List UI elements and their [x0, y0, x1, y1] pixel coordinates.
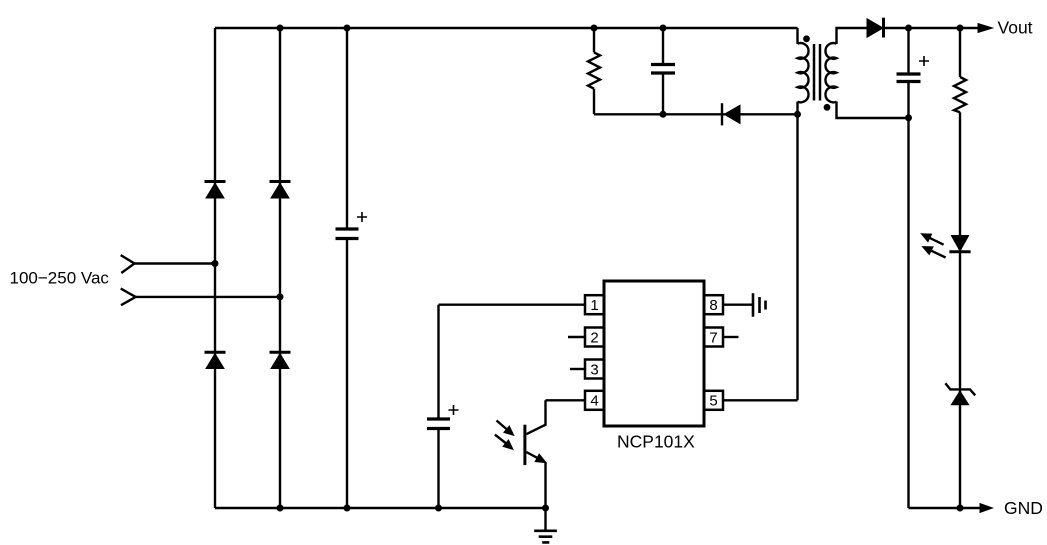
wire load column: [959, 28, 961, 508]
svg-text:NCP101X: NCP101X: [617, 431, 695, 451]
pin 5 box: [704, 391, 723, 410]
wire input line 1: [135, 262, 216, 264]
wire ground stub: [544, 508, 546, 530]
wire bridge right leg: [279, 28, 281, 508]
node bottom right / zener: [957, 505, 964, 512]
node bottom rail / bulk cap: [344, 505, 351, 512]
svg-text:4: 4: [590, 393, 598, 410]
wire bottom rail: [215, 507, 546, 509]
wire secondary bottom: [837, 102, 909, 119]
wire output rail: [885, 27, 978, 29]
svg-text:2: 2: [590, 329, 598, 346]
arrow Vout: [978, 24, 993, 33]
svg-text:7: 7: [709, 329, 717, 346]
diode D2 bridge top-right: [270, 182, 291, 199]
node secondary bottom / cap: [905, 114, 912, 121]
pin 2 box: [585, 328, 604, 347]
ground symbol pin 8 (sideways): [753, 293, 766, 317]
diode D1 bridge top-left: [205, 182, 226, 199]
pin 4 box: [585, 391, 604, 410]
node output rail / cap: [905, 25, 912, 32]
node top rail / snubber R: [591, 25, 598, 32]
light arrow 2: [495, 435, 506, 444]
capacitor C3 output: [897, 56, 930, 82]
node top rail / bulk cap: [344, 25, 351, 32]
capacitor C2 snubber: [651, 65, 675, 74]
wire snubber bottom: [594, 113, 798, 115]
node output rail / load: [957, 25, 964, 32]
pin 8 box: [704, 295, 723, 314]
node top rail / snubber C: [660, 25, 667, 32]
connector arrow input 2: [121, 289, 136, 306]
wire pin8: [724, 304, 753, 306]
base bar: [523, 425, 526, 465]
svg-text:5: 5: [709, 393, 717, 410]
wire input line 2: [136, 296, 280, 298]
node bottom rail / vcc cap: [435, 505, 442, 512]
wire pin1 to vcc cap: [439, 304, 586, 306]
wire pin5 to drain: [724, 399, 798, 401]
collector lead: [526, 400, 545, 434]
diode D6 output rectifier: [867, 18, 884, 38]
transformer core: [814, 44, 820, 101]
node ground junction: [542, 505, 549, 512]
wire secondary top: [837, 28, 867, 44]
wire opto emitter column: [544, 463, 546, 508]
capacitor C1 bulk: [336, 212, 368, 239]
wire pin3 stub: [570, 368, 585, 370]
wire snubber cap column: [662, 28, 664, 114]
wire top rail: [215, 27, 798, 29]
svg-text:100−250 Vac: 100−250 Vac: [10, 268, 110, 287]
wire vcc cap column: [437, 305, 439, 508]
diode D4 bridge bottom-right: [270, 352, 291, 368]
wire pin2 stub: [568, 336, 585, 338]
transformer T1 primary winding: [798, 43, 809, 102]
svg-text:1: 1: [590, 297, 598, 314]
phase dot primary: [803, 35, 810, 42]
capacitor C4 vcc: [427, 405, 459, 429]
diode D3 bridge bottom-left: [205, 352, 226, 368]
pin 3 box: [585, 360, 604, 379]
node snubber / primary: [794, 111, 801, 118]
pin 1 box: [585, 295, 604, 314]
wire snubber resistor column: [593, 28, 595, 114]
light arrow 1: [497, 421, 508, 430]
wire pin7 stub: [724, 336, 739, 338]
optocoupler LED D7: [921, 234, 970, 258]
optocoupler transistor Q1: [495, 400, 546, 465]
svg-text:GND: GND: [1004, 498, 1043, 518]
transformer T1 secondary winding: [825, 43, 836, 102]
wire bridge left leg: [214, 28, 216, 508]
phase dot secondary: [824, 104, 831, 111]
wire bulk cap column: [346, 28, 348, 508]
wire pin4: [546, 399, 586, 401]
wire primary column / drain: [796, 28, 798, 400]
IC U1 NCP101X body: [604, 281, 704, 426]
svg-text:3: 3: [590, 361, 598, 378]
connector arrow input 1: [121, 255, 135, 273]
zener diode D8: [945, 383, 975, 405]
svg-text:8: 8: [709, 297, 717, 314]
node input 2: [277, 293, 284, 300]
arrow GND: [980, 504, 993, 513]
diode D5 snubber: [722, 103, 740, 125]
wire output cap column: [907, 28, 909, 508]
node top rail / bridge right: [277, 25, 284, 32]
node bottom rail / bridge right: [277, 505, 284, 512]
wire bottom right: [909, 507, 981, 509]
node input 1: [212, 260, 219, 267]
pin 7 box: [704, 328, 723, 347]
ground symbol main: [534, 531, 557, 543]
svg-text:Vout: Vout: [998, 18, 1033, 38]
resistor R2 load: [954, 77, 966, 112]
emitter lead: [526, 452, 539, 459]
resistor R1 snubber: [588, 52, 600, 88]
node snubber bottom / cap: [660, 111, 667, 118]
